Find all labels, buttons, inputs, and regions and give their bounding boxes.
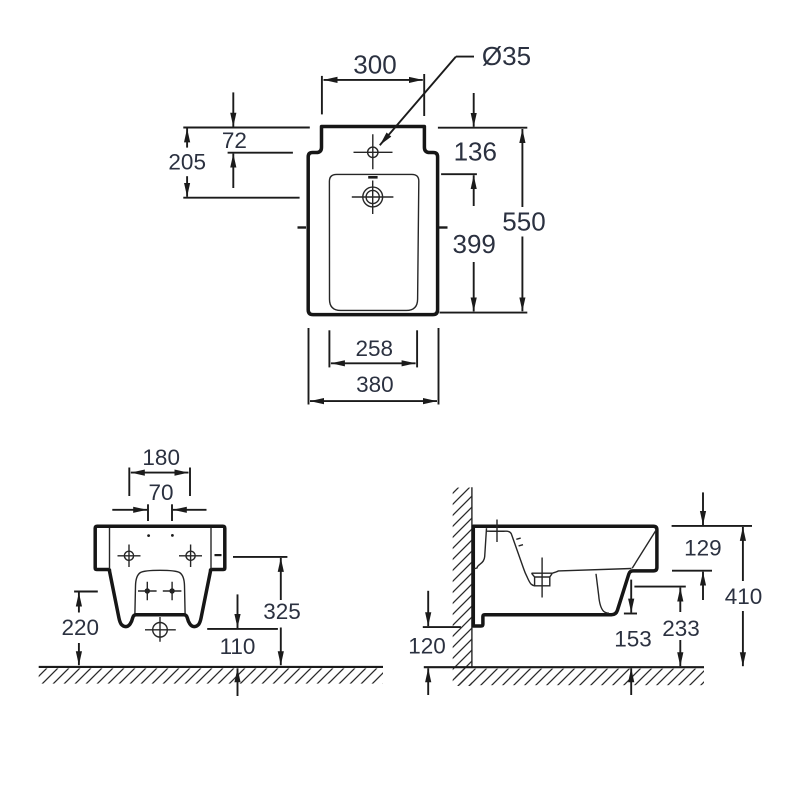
dim 410: dimension line lower segment: [742, 611, 744, 666]
dim 205: drain level extension line: [183, 197, 299, 199]
dim 136: top edge extension line (right): [438, 127, 527, 129]
dim 233: lower arrow: [679, 640, 681, 666]
wall hatching (side): [453, 488, 472, 686]
dim Ø35: leader arrow: [380, 57, 456, 146]
floor hatching (front): [39, 668, 383, 683]
dim 129: rim level extension line: [672, 570, 712, 572]
dim 70: left outside arrow: [112, 509, 147, 511]
dim 233: upper arrow: [679, 588, 681, 612]
dim 220: level extension line: [74, 591, 98, 593]
faucet dot left (front): [147, 534, 150, 537]
dim 399: lower arrow: [473, 262, 475, 311]
dim 180: extension line right: [189, 468, 191, 497]
svg-text:180: 180: [142, 445, 180, 470]
front rim inner line (side): [632, 530, 656, 568]
dim Ø35: leader tail: [456, 56, 474, 58]
dim 300: extension line left: [321, 76, 323, 115]
dim 110: lower arrow below floor: [237, 668, 239, 696]
svg-text:72: 72: [222, 128, 247, 153]
faucet dot right (front): [171, 534, 174, 537]
dim 325: level extension line: [233, 556, 287, 558]
drain circle (front): [153, 623, 168, 638]
dim 180: extension line left: [128, 468, 130, 497]
svg-text:300: 300: [353, 50, 396, 80]
drain cup crosshair (side): [541, 558, 543, 598]
dim 258: extension line right: [416, 330, 418, 367]
centerline tick left: [298, 226, 307, 228]
bowl floor line (side, inner): [552, 569, 631, 574]
dim 136: rim extension line: [441, 173, 477, 175]
dim 258: extension line left: [328, 330, 330, 367]
bidet body outline (side): [473, 526, 657, 626]
dim 205: upper arrow: [186, 128, 188, 147]
svg-text:220: 220: [62, 615, 100, 640]
dim 550: dimension line lower segment: [521, 237, 523, 312]
dim 110: level extension line: [207, 628, 278, 630]
trap bolt left (front): [145, 588, 150, 593]
svg-text:205: 205: [168, 149, 206, 174]
dim 129: lower arrow: [702, 572, 704, 600]
dim 72: step extension line: [228, 152, 293, 154]
svg-text:258: 258: [356, 336, 394, 361]
centerline tick right (front): [215, 554, 222, 556]
svg-text:70: 70: [148, 480, 173, 505]
drain crosshair: [352, 181, 394, 215]
bidet body outline (front): [95, 526, 225, 626]
floor hatching (side): [455, 669, 704, 686]
svg-text:233: 233: [662, 616, 700, 641]
dim 380: extension line right: [438, 328, 440, 405]
dim 153: level extension line: [624, 613, 637, 615]
dim 300: extension line right: [423, 74, 425, 116]
drain inner circle (plan): [366, 190, 379, 203]
dim 110: upper arrow: [237, 594, 239, 628]
dim 129: top edge extension line: [672, 525, 752, 527]
slope tick marks (side): [516, 538, 523, 546]
bowl rim (plan, inner): [329, 174, 418, 310]
dim 233: level extension line: [634, 586, 685, 588]
svg-text:110: 110: [220, 634, 256, 659]
svg-text:410: 410: [725, 584, 763, 609]
mounting hole left crosshair: [118, 545, 141, 568]
dim 120: upper arrow: [427, 591, 429, 626]
dim 72: lower arrow: [232, 154, 234, 188]
floor line (side): [424, 666, 704, 668]
dim 258: dimension line with arrows: [331, 362, 416, 364]
svg-text:399: 399: [453, 229, 496, 259]
dim 72: upper arrow: [232, 92, 234, 126]
dim 380: dimension line with arrows: [310, 400, 437, 402]
floor line (front): [39, 666, 383, 668]
drain cup (side): [532, 573, 553, 586]
dim 399/550: bottom extension line (right): [440, 312, 528, 314]
dim 120: lower arrow below floor: [427, 668, 429, 695]
trap arch (front): [135, 570, 185, 613]
dim 136: upper arrow: [473, 93, 475, 127]
centerline tick right: [439, 226, 448, 228]
drain crosshair (front): [145, 617, 176, 642]
dim 325: lower arrow: [280, 628, 282, 666]
faucet crosshair (side): [490, 520, 505, 543]
tab inner line left (front): [109, 528, 111, 569]
dim 380: extension line left: [308, 328, 310, 405]
drain outer circle (plan): [363, 187, 383, 207]
dim 399: upper arrow: [473, 175, 475, 206]
dim 205: lower arrow: [186, 176, 188, 197]
dim 129: upper arrow: [702, 492, 704, 525]
dim 153: lower arrow below floor: [630, 668, 632, 695]
trap bolt right (front): [169, 588, 174, 593]
trap bolt right crosshair: [163, 582, 182, 601]
mounting hole left (front): [124, 551, 133, 560]
dim 325: upper arrow: [280, 558, 282, 600]
rim tick mark: [368, 176, 377, 179]
dim 70: right outside arrow: [173, 509, 207, 511]
dim 70: extension line left: [147, 504, 149, 521]
dim 410: dimension line upper segment: [742, 527, 744, 581]
dim 300: dimension line with arrows: [324, 79, 423, 81]
dim 220: upper arrow: [78, 593, 80, 613]
wall line (side): [471, 487, 473, 667]
dim 153: upper arrow: [630, 580, 632, 613]
svg-text:550: 550: [502, 207, 545, 237]
front inner lower line (side): [596, 574, 609, 613]
dim 120: level extension line: [423, 626, 461, 628]
faucet hole (plan): [368, 147, 378, 157]
svg-text:120: 120: [408, 634, 446, 659]
svg-text:380: 380: [356, 372, 394, 397]
svg-text:153: 153: [614, 627, 652, 652]
faucet hole crosshair: [354, 134, 393, 169]
dim 550: dimension line upper segment: [521, 129, 523, 207]
svg-text:325: 325: [263, 599, 301, 624]
tab inner line right (front): [210, 528, 212, 569]
svg-text:Ø35: Ø35: [482, 41, 531, 71]
dim 180: dimension line with arrows: [131, 472, 189, 474]
trap bolt left crosshair: [138, 582, 157, 601]
svg-text:129: 129: [684, 536, 722, 561]
tap platform and bowl back slope (side, inner): [486, 531, 534, 586]
dim 72/205: top edge extension line (left): [183, 127, 309, 129]
svg-text:136: 136: [454, 137, 497, 167]
dim 220: lower arrow: [78, 643, 80, 665]
fixing pocket (side, inner): [474, 528, 487, 569]
bidet body outline (plan): [308, 127, 437, 315]
mounting hole right (front): [186, 551, 195, 560]
dim 70: extension line right: [171, 504, 173, 521]
mounting hole right crosshair: [179, 545, 202, 568]
